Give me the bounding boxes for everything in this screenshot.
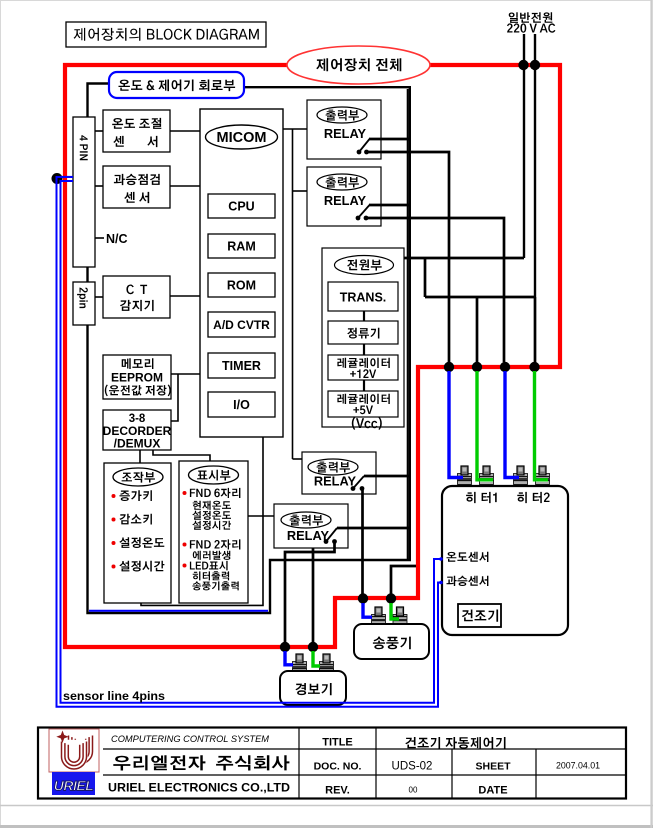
junction dot blower-1 <box>358 593 368 603</box>
titleblock verticals <box>298 728 300 799</box>
junction dot heater1-L <box>444 362 454 372</box>
svg-text:RELAY: RELAY <box>314 474 357 489</box>
wire relay2 NO contact <box>369 204 411 207</box>
wire 표시부 to relay4 <box>248 515 274 517</box>
label 일반전원 220 V AC <box>509 12 553 23</box>
logo URIEL mark <box>49 729 99 772</box>
box dryer 건조기 enclosure <box>442 486 568 635</box>
조작부 item 감소키 <box>112 518 116 522</box>
svg-text:RELAY: RELAY <box>324 193 367 208</box>
표시부 item FND 6자리 <box>183 491 187 495</box>
junction dot heater2-N <box>529 362 539 372</box>
wire relay4 NO contact <box>337 527 409 530</box>
bus MICOM to relays top <box>283 128 307 130</box>
relay U4 출력부 RELAY <box>274 504 348 548</box>
junction dot alarm-1 <box>280 642 290 652</box>
wire relay4 aux down <box>312 548 315 642</box>
표시부 item 설정시간 <box>192 521 231 530</box>
box 정류기 <box>328 321 398 344</box>
표시부 item FND 2자리 <box>183 543 187 547</box>
connector box 4 PIN <box>73 117 95 267</box>
label 온도센서 <box>447 552 489 562</box>
box TRANS. <box>328 282 398 311</box>
220V AC line A <box>523 34 525 258</box>
plug blower-a <box>372 615 386 620</box>
red power loop wire <box>65 65 560 647</box>
wire 2pin to CT <box>95 296 103 298</box>
box 경보기 <box>280 671 346 705</box>
blue wire to heater1 <box>449 371 463 478</box>
blue stub to 4PIN lower <box>58 180 73 182</box>
plug blower-b <box>393 615 407 620</box>
svg-text:ROM: ROM <box>227 279 256 293</box>
svg-text:SHEET: SHEET <box>475 761 511 773</box>
box 전원부 <box>322 248 404 427</box>
box 레귤레이터 +5V <box>328 391 398 417</box>
plug alarm-a <box>293 662 307 667</box>
green wire to heater1 <box>477 371 493 480</box>
bus vertical to relays <box>292 129 294 459</box>
green wire to alarm <box>313 651 320 666</box>
plug heater2-a <box>514 474 528 479</box>
표시부 item 히터출력 <box>193 571 229 580</box>
junction dot blower-2 <box>386 593 396 603</box>
svg-text:MICOM: MICOM <box>217 130 267 146</box>
svg-text:DOC. NO.: DOC. NO. <box>314 761 362 773</box>
svg-text:CPU: CPU <box>228 200 254 214</box>
plug heater2-b <box>536 474 550 479</box>
svg-text:N/C: N/C <box>106 232 128 246</box>
bus stub relay2 <box>293 190 308 192</box>
box 조작부 <box>104 463 171 603</box>
blue sensor wire inner <box>57 177 443 707</box>
blue wire to blower <box>363 603 372 617</box>
box 메모리 EEPROM <box>103 355 171 399</box>
svg-text:RAM: RAM <box>227 240 255 254</box>
wire EEPROM branch down <box>171 374 178 421</box>
green wire to heater2 <box>535 371 549 480</box>
MICOM container box <box>200 109 283 437</box>
svg-text:UDS-02: UDS-02 <box>392 761 433 773</box>
조작부 item 증가키 <box>112 494 116 498</box>
blue sensor wire outer <box>61 181 443 703</box>
wire EEPROM to MICOM <box>171 373 200 375</box>
wire 4PIN to 온도조절센서 <box>95 130 103 132</box>
svg-text:sensor line 4pins: sensor line 4pins <box>63 691 165 703</box>
label 히터2 <box>517 492 549 503</box>
표시부 item 현재온도 <box>193 501 231 510</box>
wire TRANS to 정류기 <box>363 311 365 321</box>
plug heater1-b <box>480 474 494 479</box>
label 히터1 <box>466 492 497 503</box>
blue label box 온도 & 제어기 회로부 <box>109 72 244 98</box>
green wire to blower <box>391 603 399 619</box>
relay U2 출력부 RELAY <box>307 167 381 226</box>
title box 제어장치의 BLOCK DIAGRAM <box>66 22 266 47</box>
ellipse 제어장치 전체 <box>287 46 430 84</box>
cell 건조기 자동제어기 <box>405 737 505 749</box>
wire drop to heater dot2 <box>476 297 479 362</box>
box 과승점검 센서 <box>103 166 170 208</box>
box TIMER <box>208 353 275 378</box>
wire CT to MICOM <box>170 295 200 297</box>
svg-text:RELAY: RELAY <box>324 126 367 141</box>
svg-text:RELAY: RELAY <box>287 528 330 543</box>
label 과승센서 <box>447 576 489 586</box>
svg-text:DATE: DATE <box>478 785 507 797</box>
box ROM <box>208 273 275 297</box>
junction dot 220V-A <box>518 60 528 70</box>
junction dot 220V-B <box>530 60 540 70</box>
wire 온도조절센서 to MICOM <box>170 130 200 132</box>
box label 건조기 <box>458 604 501 627</box>
svg-text:TITLE: TITLE <box>322 737 353 749</box>
box 표시부 <box>179 461 248 603</box>
box 3-8 DECORDER/DEMUX <box>103 410 171 450</box>
blue sensor tick 과승센서 <box>439 581 443 585</box>
box 송풍기 <box>354 624 429 659</box>
wire 과승점검센서 to MICOM <box>170 185 200 187</box>
wire relay3 NO contact <box>364 475 409 478</box>
box C T 감지기 <box>103 276 170 318</box>
조작부 item 설정온도 <box>112 541 116 545</box>
relay U1 출력부 RELAY <box>307 100 381 159</box>
wire 4PIN to 과승점검센서 <box>95 185 103 187</box>
blue wire to alarm <box>285 651 293 665</box>
svg-text:2007.04.01: 2007.04.01 <box>556 761 600 771</box>
blue wire enclosure bottom <box>89 610 268 612</box>
wire AC horizontal y297 <box>425 296 535 299</box>
blue wire to heater2 <box>505 371 519 478</box>
logo URIEL blue bar <box>52 772 95 795</box>
label 우리엘전자 주식회사 <box>113 755 289 770</box>
wire AC feed to 전원부 <box>404 257 524 260</box>
svg-text:TRANS.: TRANS. <box>340 291 387 305</box>
wire relay4 common down <box>285 542 335 643</box>
relay U3 출력부 RELAY <box>302 452 376 494</box>
N/C tick <box>95 237 104 239</box>
wire drop to heater dot4 <box>534 297 537 362</box>
box A/D CVTR <box>208 312 275 337</box>
wire MICOM to 조작부 <box>141 437 263 605</box>
svg-text:URIEL ELECTRONICS CO.,LTD: URIEL ELECTRONICS CO.,LTD <box>108 781 290 795</box>
box 레귤레이터 +12V <box>328 355 398 380</box>
wire relay3 common down <box>361 490 364 594</box>
blue stub to 4PIN upper <box>58 176 73 178</box>
svg-text:REV.: REV. <box>325 785 350 797</box>
조작부 item 설정시간 <box>112 565 116 569</box>
label (Vcc) <box>352 417 382 430</box>
wire relay1 NO contact <box>369 138 411 141</box>
box RAM <box>208 234 275 258</box>
표시부 item 설정온도 <box>192 511 231 520</box>
junction dot heater1-N <box>472 362 482 372</box>
bus stub relay3 <box>293 458 303 460</box>
plug alarm-b <box>320 662 334 667</box>
wire AC rail along enclosure edge <box>407 89 409 559</box>
titleblock horizontals <box>103 748 626 750</box>
wire 정류기 to 레귤레이터 <box>363 344 365 355</box>
enclosure 온도&제어기 회로부 boundary <box>88 84 410 614</box>
MICOM ellipse label <box>206 125 278 149</box>
junction dot sensor-line <box>52 173 63 184</box>
wire blower tap riser <box>391 566 416 594</box>
220V AC line B <box>534 34 536 297</box>
box 온도 조절 센서 <box>103 110 170 152</box>
connector box 2pin <box>73 282 95 325</box>
box I/O <box>208 392 275 417</box>
svg-text:00: 00 <box>409 786 418 795</box>
svg-text:TIMER: TIMER <box>222 359 261 373</box>
wire +12V to +5V <box>363 380 365 391</box>
junction dot alarm-2 <box>308 642 318 652</box>
plug heater1-a <box>458 474 472 479</box>
svg-text:/DEMUX: /DEMUX <box>114 437 161 451</box>
svg-text:EEPROM: EEPROM <box>111 371 163 385</box>
svg-text:I/O: I/O <box>233 398 250 412</box>
svg-text:URIEL: URIEL <box>54 778 94 794</box>
wire AC riser x425 <box>424 258 427 297</box>
표시부 item 송풍기출력 <box>192 581 238 590</box>
junction dot heater2-L <box>500 362 510 372</box>
blue sensor tick 온도센서 <box>439 557 443 561</box>
titleblock outer frame <box>38 728 626 799</box>
wire relay1 common <box>367 152 450 362</box>
표시부 item 에러발생 <box>193 551 231 560</box>
svg-text:A/D CVTR: A/D CVTR <box>213 318 270 332</box>
box CPU <box>208 194 275 218</box>
wire 3-8 to 조작부 <box>139 450 141 463</box>
wire relay2 common <box>366 218 504 362</box>
svg-text:COMPUTERING CONTROL SYSTEM: COMPUTERING CONTROL SYSTEM <box>111 734 270 744</box>
wire 3-8 to 표시부 <box>153 450 210 461</box>
표시부 item LED표시 <box>183 564 187 568</box>
